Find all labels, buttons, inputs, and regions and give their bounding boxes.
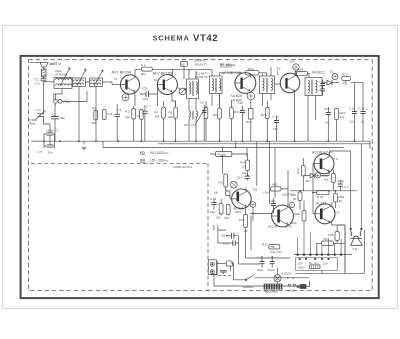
svg-text:R32: R32 [296,168,300,174]
capacitor C17 [237,171,251,181]
resistor R29 [334,191,345,208]
wire T5 collector [250,76,252,78]
capacitor C9 [115,104,122,141]
label 220k AF/A [55,69,68,77]
capacitor C14 [210,197,217,214]
svg-text:C 22: C 22 [273,115,280,119]
battery cells 8x1.5V [309,261,328,268]
transistor T7 XA B22 [280,73,300,93]
svg-text:+10k: +10k [263,191,270,195]
resistor R26 [219,174,231,196]
wires transformer T4 [203,69,219,106]
svg-text:C31 C14: C31 C14 [270,250,282,254]
resistor R19 [297,68,308,76]
resistor R24 [335,109,346,120]
wire R23 right to border [351,83,364,108]
svg-text:R11: R11 [213,113,219,117]
label C31 C14 bottom [270,250,282,254]
small alignment circle driver [230,181,237,188]
IF T3 secondary winding [189,111,198,120]
dashed divider vertical [207,163,209,291]
wire pot to block [210,154,248,160]
wire L2 to L3 to L4 [72,82,112,85]
label FO 510-1622 Kcs [140,151,169,155]
svg-text:450±: 450± [29,122,36,126]
svg-text:R1: R1 [92,107,96,111]
capacitor C32 500u [338,179,350,191]
svg-text:Mk: Mk [214,191,218,195]
label 4700 [29,118,38,126]
svg-text:17n: 17n [35,82,40,86]
label AF3 BF195 [222,70,242,75]
label C10 10n [184,123,197,127]
svg-text:R15: R15 [261,113,267,117]
svg-text:R 26: R 26 [317,195,324,199]
svg-text:10n: 10n [48,151,53,155]
svg-text:DRV: DRV [235,210,241,214]
long diagonal tuning line [196,106,207,124]
svg-text:C8: C8 [200,101,204,105]
svg-text:+ C 2: + C 2 [342,185,350,189]
svg-text:C 5: C 5 [38,150,43,154]
svg-text:10μ: 10μ [210,210,215,214]
svg-text:AMPER.: AMPER. [242,285,255,289]
svg-text:R 6: R 6 [219,181,224,185]
capacitor C8 [200,101,207,142]
label 10n small top [290,60,295,64]
transistor Q7 AC188 [313,154,334,174]
svg-text:C31: C31 [270,199,276,203]
svg-text:VT42: VT42 [193,33,218,44]
svg-text:22k: 22k [216,216,221,220]
capacitor C16 bottom [268,255,275,272]
wire C2 down [43,117,50,133]
dashed divider horizontal [31,162,208,164]
transistor T1 AF1 BF194 [112,75,140,94]
label BC136 [268,224,292,228]
label Ta [335,211,340,215]
wire driver out bus [246,188,272,222]
resistor R23 [342,73,351,86]
capacitor C10 bottom [257,255,265,272]
svg-text:1k: 1k [137,114,141,118]
capacitor C22 [273,115,280,142]
svg-text:R 2: R 2 [125,110,130,114]
svg-text:+: + [237,231,239,235]
svg-text:C 7: C 7 [146,105,151,109]
earphone plug [217,261,232,276]
capacitor C7 [142,105,151,142]
resistor R13 [219,67,266,76]
wire pot wiper down [221,156,223,174]
battery enclosure wires [296,258,338,274]
transistor T5 AF3 [234,73,256,94]
top supply rail [135,68,203,70]
IF transformer T6 [260,76,275,94]
wires C4 C5 bracket [31,134,55,149]
label 1k R2 [282,193,295,197]
svg-text:T1: T1 [114,77,118,81]
svg-text:C3: C3 [52,113,56,117]
label XA B22 [312,70,325,75]
small circle above diode [330,70,338,80]
earphone jack socket [208,260,217,275]
trimmer arrow on L4 [94,70,103,86]
trimmer capacitor C2 [36,108,46,120]
wire T1 emitter down [134,92,137,107]
wire right column down [345,81,347,83]
battery connector bottom [297,281,310,289]
transistor T2 AF2 BF195 [157,75,177,95]
wire L2 bottom loop to P13 [54,89,87,102]
capacitor C31 [270,198,277,213]
wire lamp [278,268,295,286]
vertical link bus left [103,141,370,148]
capacitors beside T8 [321,80,326,96]
wire to T7 base [275,83,282,85]
svg-text:47k: 47k [340,116,345,120]
capacitor C15 [238,101,246,141]
resistor R11 [213,94,221,142]
wire T1 collector up [134,69,136,77]
wire R37 [317,243,345,254]
capacitor C5 bypass [38,145,54,155]
resistor R28 [317,191,330,199]
svg-text:Rc: Rc [155,110,159,114]
label R30 bottom [291,221,297,225]
svg-text:20k: 20k [141,72,146,76]
wire T2 base bias [157,85,159,106]
wire vertical center audio [238,216,251,265]
wire T7 emitter down to bus [294,91,296,141]
svg-text:6,3Ω/A: 6,3Ω/A [282,272,291,276]
resistor R2 470 [125,106,136,141]
svg-text:470: 470 [125,116,130,120]
svg-text:D1: D1 [330,70,334,74]
svg-text:C 26: C 26 [359,107,366,111]
capacitor C3 40u [51,105,65,142]
svg-text:50164 T1: 50164 T1 [195,75,208,79]
label BC125 DRV [234,207,244,215]
svg-text:8x: 8x [309,261,313,265]
resistor R10 [204,101,208,141]
vertical wires upper-to-audio links [236,141,275,204]
svg-text:5.T0: 5.T0 [286,225,292,229]
svg-text:AF2 BF195: AF2 BF195 [153,71,173,76]
svg-text:: 150 - 260Kcs: : 150 - 260Kcs [148,159,169,163]
svg-text:GO: GO [140,159,146,163]
svg-text:20k: 20k [168,115,173,119]
right side rail 4 [344,225,346,272]
wires audio left column [214,225,228,243]
small circle T7 marker [289,202,294,207]
capacitor C4 [46,129,59,136]
small circle D2 above T7 [293,64,299,76]
wire jack down to switch [231,263,247,280]
svg-text:HQ5: HQ5 [298,266,304,270]
resistor R28a [225,205,231,221]
svg-text:10n: 10n [184,123,189,127]
resistor R35 [328,225,339,244]
wires T8 bottom [308,96,316,142]
alignment point circle under T1 [122,94,129,101]
capacitor C11 vertical [103,110,113,120]
trimmer circle right of T2 [178,88,186,95]
wire C1 to coil box [44,81,55,96]
wire speaker top connects [339,224,346,226]
svg-text:+: + [366,108,368,112]
audio block enclosure right [344,225,346,273]
trimmer arrow on L2 [60,68,70,87]
wires AC188 emitter chain [303,172,329,176]
alignment circle under T5 [247,92,255,100]
secondary bus line [103,147,344,149]
wire T7 collector to transformer [295,72,309,78]
trimmer arrow on L3 [77,69,86,86]
label XA B29 XA B30 [231,94,242,103]
transistor Q6 BC136 [272,205,294,227]
power switch contact [245,275,309,281]
svg-text:P13: P13 [64,100,70,104]
svg-text:R23: R23 [342,73,348,77]
svg-text:C 2: C 2 [36,108,41,112]
wire AC188 collector [330,151,351,157]
svg-text:798: 798 [270,245,275,249]
wire pot top tap [221,148,223,152]
svg-text:R24: R24 [340,111,346,115]
junction dots audio [247,174,337,214]
capacitor C1 [35,78,47,86]
wire AC187 collector down [332,202,346,225]
label AF1 BF194 [112,70,133,82]
svg-text:R13: R13 [248,67,254,71]
bus wires bottom [214,258,297,286]
antenna label ANT V [50,62,62,66]
svg-text:ANT V: ANT V [50,62,62,66]
svg-text:T.5: T.5 [253,188,258,192]
ground at bus left [82,141,87,150]
svg-text:5k1: 5k1 [225,216,230,220]
label RF 460kcs [220,63,236,67]
wires IF T3 [189,69,196,141]
svg-text:BC136: BC136 [268,224,278,228]
resistor R8 50k [181,62,188,80]
ferrite rod coil L2 box [54,78,72,89]
svg-text:T 9: T 9 [334,157,339,161]
wire T8 to diode [322,82,327,84]
second bus line [158,143,370,145]
outer solid frame [21,56,379,298]
resistor R30 [292,191,303,210]
wire T2 collector up [172,69,174,77]
label AC187 [316,202,326,206]
antenna coil L1 (hatched) [42,69,47,77]
right side rail 2 [360,144,362,231]
junction dots on bus [43,140,355,142]
svg-text:C11: C11 [107,112,113,116]
svg-text:190p C 4: 190p C 4 [46,129,59,133]
resistor R38 798 [262,243,280,250]
svg-text:R19: R19 [298,68,304,72]
resistor R6 [141,64,152,76]
label T5 driver [253,188,258,192]
wire coils down to bus [79,87,96,142]
svg-text:38k: 38k [92,121,97,125]
svg-text:10μ+: 10μ+ [257,268,264,272]
IF transformer T8 detector [305,78,322,96]
svg-text:12: 12 [242,165,246,169]
wire BC136 collector up [281,170,288,208]
resistor R27 [216,199,223,220]
svg-text:T4: T4 [277,67,281,71]
label GO 150-260 Kcs [140,159,169,163]
svg-text:R 8: R 8 [262,243,267,247]
svg-text:~10dB 2μV/kcs: ~10dB 2μV/kcs [172,165,193,169]
label sensitivity note [172,165,193,169]
battery box 12V [297,262,304,270]
svg-text:C 9: C 9 [117,108,122,112]
svg-text:XA B29: XA B29 [231,94,242,98]
svg-text:C 14: C 14 [210,197,217,201]
svg-text:50164 T3: 50164 T3 [195,63,208,67]
capacitor C27 [324,107,331,125]
tuning coil L3 [73,78,86,87]
resistor R17 box [246,100,253,141]
capacitor C33 500u [222,231,240,239]
svg-text:13n: 13n [350,120,355,124]
svg-text:500μ: 500μ [338,179,345,183]
mid audio bus wire [290,190,357,192]
svg-text:AF1 BF194: AF1 BF194 [112,70,133,75]
resistor R3 1k [137,110,143,142]
svg-text:XA B22: XA B22 [312,70,325,75]
svg-text:10n: 10n [325,121,330,125]
label T4 [277,67,281,75]
wire links audio top [226,189,230,199]
svg-text:C15: C15 [238,101,244,105]
wire C3 branch [54,103,57,104]
main horizontal bus [31,140,370,142]
label AF2 BF195 [153,71,173,83]
title SCHEMA VT42 [153,33,219,44]
svg-text:RF 460kcs: RF 460kcs [220,63,236,67]
label FU 2 [288,284,295,292]
diode D3 bias [306,173,315,183]
svg-text:P15: P15 [239,218,245,222]
svg-text:R30: R30 [291,221,297,225]
svg-text:C 16: C 16 [268,255,275,259]
resistor R32 [296,158,305,191]
speaker feed arrows [350,228,363,231]
svg-text:10μA: 10μA [268,268,275,272]
wire antenna to C1 [43,77,45,79]
wire T2 emitter down [172,92,176,107]
svg-text:12V: 12V [323,262,328,266]
label 501 6477 [195,59,208,80]
resistor R14 [230,101,243,141]
svg-text:: 510-1622Kcs: : 510-1622Kcs [148,151,169,155]
wires detector outputs down [328,120,363,142]
dial lamp [274,272,291,282]
capacitor C26 [359,107,369,124]
svg-text:SCHEMA: SCHEMA [153,34,190,43]
fuse block (striped) [264,284,282,289]
svg-text:C17: C17 [237,176,243,180]
svg-text:4 Ω: 4 Ω [352,247,358,251]
thermistor circle [315,173,320,178]
tuning coil L4 [90,78,103,87]
resistor R1 [92,107,98,126]
svg-text:10n: 10n [273,127,278,131]
right side rail 3 [296,230,365,273]
resistor R34 [294,201,306,226]
label under fuse block [265,290,279,294]
diode D1 detector [327,80,332,85]
label AC188 7mA [312,151,338,162]
label AMPER [242,285,255,289]
svg-text:REGLAGE: REGLAGE [265,290,279,294]
wires transformer T6 [263,67,272,106]
resistor R37 horizontal [322,237,334,246]
svg-text:FO: FO [140,151,145,155]
resistor P15 [239,209,248,234]
label Mk [214,191,218,195]
transistor Q5 BC125 [230,189,251,209]
inner dashed border [28,60,372,291]
wire AC188 base column [313,164,317,214]
IF transformer T3 primary [187,79,199,99]
resistor R15 [261,101,269,141]
svg-text:T2: T2 [154,78,158,82]
svg-text:18k: 18k [155,115,160,119]
svg-text:10μ: 10μ [242,171,247,175]
band switch P13 [54,100,70,105]
svg-text:R 6: R 6 [141,64,146,68]
wire switch to C2 [42,96,44,114]
capacitor C25 [349,107,357,124]
svg-text:30: 30 [293,197,297,201]
resistor P14 [240,160,250,175]
svg-text:40μ: 40μ [60,116,65,120]
IF transformer T4 primary [210,76,223,94]
svg-text:10n: 10n [290,60,295,64]
svg-text:C6: C6 [143,87,147,91]
resistor R7 [168,101,177,141]
antenna ANT V [30,62,49,69]
speaker [350,232,362,251]
terminal strip row [294,225,346,260]
svg-text:10n: 10n [143,97,148,101]
capacitor C6 coupling [140,87,158,102]
svg-text:C27: C27 [324,107,330,111]
wire diode to R23 [332,82,339,84]
transistor Q8 AC187 [313,204,335,224]
svg-text:9x: 9x [315,261,319,265]
volume potentiometer Pot 5k [216,152,232,157]
capacitor C13 [223,240,239,246]
resistor R33 [323,170,336,191]
svg-text:T10: T10 [335,211,340,215]
resistor R4 18k [155,101,166,141]
resistor R series feedback [263,183,281,195]
right side rail 1 [350,151,352,230]
svg-text:FU 2: FU 2 [288,288,295,292]
